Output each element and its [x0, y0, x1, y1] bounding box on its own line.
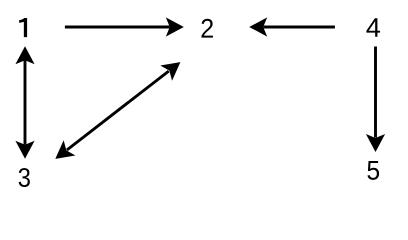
arrowhead at 2 (edge 4->2): [249, 17, 267, 36]
wire: edge 1 to 3 (double): [24, 60, 27, 144]
arrowhead at 2 (edge 1->2): [166, 17, 184, 36]
node 5: [367, 161, 379, 180]
node 3: [19, 168, 30, 187]
wire: edge 4 to 5: [374, 47, 377, 138]
arrowhead at 3 (edge 1->3): [15, 141, 34, 159]
arrowhead at 2 (edge 3->2): [160, 55, 186, 81]
node 2: [201, 19, 212, 38]
wire: edge 1 to 2: [65, 26, 170, 29]
node 1: [19, 18, 27, 37]
wire: edge 3 to 2 (double, diagonal): [67, 71, 169, 150]
arrowhead at 1 (edge 3->1): [15, 46, 34, 64]
arrowhead at 3 (edge 2->3): [49, 140, 75, 166]
arrowhead at 5 (edge 4->5): [366, 134, 385, 152]
wire: edge 4 to 2: [264, 26, 335, 29]
node 4: [366, 18, 380, 37]
